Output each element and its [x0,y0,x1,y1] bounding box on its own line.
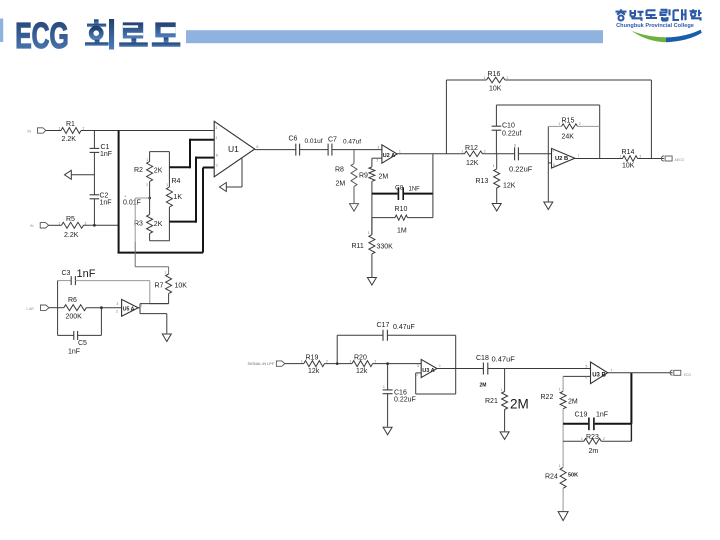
wire C5 bottom right [78,334,102,336]
svg-text:6: 6 [257,145,259,149]
svg-text:C7: C7 [328,137,337,144]
svg-text:2M: 2M [510,397,529,412]
svg-text:12k: 12k [356,368,368,375]
wire R22 top [562,376,564,391]
wire gray to cap 0.01F [135,197,149,199]
ground below C16 [383,427,392,435]
resistor R23 [584,439,602,445]
svg-text:1nF: 1nF [100,151,112,158]
wire U2A output [397,153,464,155]
svg-text:2: 2 [507,76,509,80]
college logo korean 충북도립대학 [616,9,702,20]
svg-text:U1: U1 [228,144,239,154]
svg-text:R14: R14 [622,149,635,156]
wire C17 top right [387,334,455,336]
op-amp U3A [421,359,437,377]
wire R9 down [371,181,373,234]
svg-text:U5 A: U5 A [123,307,135,313]
wire C7 to U2A [332,149,382,151]
resistor R8 [351,164,357,187]
svg-text:6: 6 [553,163,555,167]
svg-text:IN: IN [30,224,34,228]
svg-text:10K: 10K [489,86,502,93]
svg-text:7: 7 [611,369,613,373]
svg-text:200K: 200K [66,314,83,321]
svg-text:L AR: L AR [27,307,35,311]
svg-text:R1: R1 [66,121,75,128]
svg-text:2: 2 [603,437,605,441]
wire J2 to R5 [49,224,62,226]
svg-text:R10: R10 [395,206,408,213]
svg-text:1: 1 [559,387,561,391]
svg-text:0.01uf: 0.01uf [305,138,323,145]
op-amp U2A [382,145,397,163]
svg-text:R9: R9 [359,173,368,180]
svg-text:2M: 2M [336,181,346,188]
svg-text:R4: R4 [172,178,181,185]
wire R16 right vertical [650,80,652,159]
wire C17 top left [337,334,383,336]
svg-text:24K: 24K [562,134,575,141]
svg-text:R7: R7 [155,283,164,290]
capacitor C3 feedback wire left [58,280,72,282]
common reference connector [65,170,72,179]
wire R12 to C11 [483,153,515,155]
wire bottom bus [118,252,204,254]
resistor R12 [465,151,483,157]
wire R24 to ground [562,488,564,511]
svg-text:C17: C17 [377,322,390,329]
svg-text:1: 1 [484,76,486,80]
svg-text:R21: R21 [485,398,498,405]
svg-text:1: 1 [383,385,385,389]
svg-text:10K: 10K [175,283,188,290]
op-amp U3B [591,362,608,384]
ground below R13 [492,204,501,212]
junction C16 tap [386,362,389,365]
wire feedback right vertical [432,154,434,218]
svg-text:3: 3 [117,302,119,306]
resistor R3 [147,215,153,234]
svg-text:1: 1 [59,221,61,225]
wire U3A output [437,368,484,370]
wire C16 to ground [387,394,389,427]
svg-text:5: 5 [586,364,588,368]
wire C10 top [495,105,497,126]
svg-text:IN: IN [28,129,32,133]
wire reference to node [71,174,94,176]
wire C1 to C2 [93,152,95,194]
wire R6 to U5A [86,307,121,309]
svg-text:C8: C8 [395,185,404,192]
wire U2B inv stub [548,162,551,164]
wire C11 to U2B [518,153,551,155]
svg-text:0.47uf: 0.47uf [343,139,361,146]
wire gray R7 top stub [168,267,170,274]
wire top link R2-R4 [150,151,170,153]
svg-text:U3 A: U3 A [422,368,435,374]
wire C6 to C7 [300,149,329,151]
op-amp U1 [214,121,254,177]
svg-text:2: 2 [83,127,85,131]
svg-text:2: 2 [417,373,419,377]
wire R7 bottom [168,294,170,304]
svg-text:C18: C18 [476,355,489,362]
svg-text:R20: R20 [354,355,367,362]
svg-text:2: 2 [216,163,218,167]
wire terminal to R19 [285,363,304,365]
resistor R6 [64,305,87,311]
svg-text:10K: 10K [622,163,635,170]
svg-text:1nF: 1nF [596,411,608,418]
ground below R21 [500,432,509,440]
wire gain node to U1 pin8 [169,221,196,223]
wire U3A inv stub [416,372,422,374]
svg-text:C19: C19 [575,411,588,418]
resistor R10 [395,215,408,220]
ground below R11 [367,278,376,286]
wire R11 to ground [371,254,373,277]
wire J1 to R1 [46,130,61,132]
title korean 회로도 [85,19,180,50]
svg-text:R11: R11 [352,243,364,250]
wire R16 top right [505,79,651,81]
capacitor C3 [70,276,72,285]
wire R22 down through C19 R23 to R24 [562,409,564,468]
wire U2A inv input [372,157,382,159]
wire R2 top [149,152,151,162]
svg-text:12K: 12K [466,160,479,167]
svg-text:R22: R22 [541,394,554,401]
svg-text:R13: R13 [476,178,489,185]
wire inner box top [496,104,599,106]
svg-text:1NF: 1NF [409,187,421,193]
svg-text:C2: C2 [100,193,109,200]
junction C17 tap [336,362,339,365]
wire U3B inv input [563,375,590,377]
svg-text:2: 2 [326,359,328,363]
wire U2B output [575,158,623,160]
wire U3A feedback up [415,373,417,394]
svg-text:1: 1 [368,231,370,235]
capacitor C1 [90,147,100,149]
wire gain node to U1 pin1 [169,166,190,168]
wire C3 right down [149,281,151,304]
wire R23 left [563,440,584,442]
svg-text:1nF: 1nF [77,268,96,280]
resistor R1 [61,128,81,134]
svg-text:1M: 1M [397,228,407,235]
svg-text:R15: R15 [562,118,575,125]
svg-text:6: 6 [586,375,588,379]
wire C19 left [563,423,588,425]
capacitor C19 [588,418,590,431]
wire gray horizontal to R7 [135,266,168,268]
svg-text:1: 1 [350,359,352,363]
wire R3 bottom [149,234,151,241]
ground below R24 [558,512,568,521]
U1 ref connector [220,183,227,192]
capacitor C5 [73,331,75,340]
wire C16 down [387,364,389,390]
wire R16 left vertical [445,80,447,154]
svg-text:1: 1 [165,270,167,274]
wire C2 to R5 node [93,199,95,226]
svg-text:5: 5 [553,148,555,152]
wire R5 to left bus [84,224,119,226]
capacitor C10 [492,125,502,127]
output terminal ECG [661,156,664,161]
svg-text:2m: 2m [589,448,599,455]
wire C10 bottom [495,130,497,154]
left edge accent bar [0,19,3,43]
resistor R14 [623,156,638,162]
svg-text:R19: R19 [306,355,319,362]
wire U1 output [255,149,296,151]
capacitor 0.01F wire down [134,198,136,242]
capacitor C6 [295,144,297,156]
wire R15 right [578,125,600,127]
svg-text:ECG: ECG [684,373,692,377]
ground below U5A [162,334,171,342]
svg-text:2M: 2M [379,174,389,181]
resistor R11 [369,235,375,254]
wire C5 bottom left [58,334,74,336]
svg-text:0.01F: 0.01F [123,200,141,207]
resistor R2 [147,162,153,182]
resistor R13 [494,169,500,188]
wire R13 to ground [496,188,498,203]
svg-text:2.2K: 2.2K [62,136,77,143]
svg-text:0.47uF: 0.47uF [492,355,516,364]
wire R20 to U3A [373,363,422,365]
svg-text:0.47uF: 0.47uF [393,324,415,331]
wire R19 to R20 [325,363,353,365]
svg-text:R2: R2 [134,167,143,174]
svg-text:SIGNAL IN LPF: SIGNAL IN LPF [248,362,275,366]
wire U3A feedback bottom [416,393,456,395]
svg-text:1: 1 [146,158,148,162]
resistor R5 [62,222,84,228]
svg-text:R6: R6 [68,297,77,304]
wire J3 to R6 [49,307,64,309]
wire C17 left vertical [336,335,338,363]
capacitor C3 feedback wire right [75,280,149,282]
svg-text:2M: 2M [480,383,487,389]
ground below U2B [544,202,553,210]
svg-text:2: 2 [146,183,148,187]
wire R13 top [496,154,498,169]
capacitor C7 [327,144,329,156]
svg-text:R23: R23 [586,434,599,441]
op-amp U2B [552,148,575,168]
svg-text:1: 1 [501,388,503,392]
wire inner box right vertical [599,105,601,159]
wire R2 to R3 [149,182,151,215]
resistor R21 [502,392,508,410]
resistor R19 [304,361,325,367]
junction R2-R3 node [148,197,151,200]
svg-text:AECG: AECG [675,158,685,162]
svg-text:U3 B: U3 B [592,373,606,379]
resistor R15 [562,124,578,129]
svg-text:1K: 1K [174,194,183,201]
svg-text:0.22uF: 0.22uF [394,396,416,403]
svg-text:2: 2 [579,122,581,126]
college logo swoosh green part [632,31,667,42]
wire output to ground branch [140,313,167,315]
svg-text:R16: R16 [488,71,501,78]
svg-text:2: 2 [375,359,377,363]
wire C17 right vertical [455,335,457,394]
svg-text:3: 3 [378,146,380,150]
wire feedback right vertical thick [630,373,632,424]
svg-text:3: 3 [417,364,419,368]
wire C3 left vertical [57,281,59,336]
wire R23 right [601,440,631,442]
capacitor C17 [382,330,384,341]
capacitor C8 [397,187,399,200]
wire bottom link R3-R4 [150,240,170,242]
svg-text:1: 1 [301,359,303,363]
svg-text:U2 A: U2 A [383,153,396,159]
svg-text:6: 6 [514,144,516,148]
junction R6-C5 [100,306,103,309]
wire R4 column lower [168,207,170,241]
wire R7 bottom link [150,303,169,305]
svg-text:C16: C16 [394,389,407,396]
wire C18 to U3B [488,368,591,370]
wire U3B output [608,372,673,374]
wire C19 right [595,423,632,425]
wire output to R7 [140,303,169,305]
svg-text:Chungbuk Provincial College: Chungbuk Provincial College [616,23,694,29]
wire left bus vertical [118,131,120,253]
svg-text:U2 B: U2 B [555,156,568,162]
svg-text:1: 1 [581,437,583,441]
wire U5A output stubs [138,307,140,309]
wire R21 to ground [504,410,506,432]
svg-text:1: 1 [439,364,441,368]
svg-text:1nF: 1nF [100,200,112,207]
svg-text:R5: R5 [66,216,75,223]
resistor R16 [487,77,506,83]
svg-text:2: 2 [116,309,118,313]
svg-text:1: 1 [399,149,401,153]
svg-text:3: 3 [216,126,218,130]
resistor R7 [166,274,172,294]
svg-text:50K: 50K [568,472,578,478]
svg-text:12k: 12k [308,368,320,375]
svg-text:R24: R24 [545,473,558,480]
resistor R20 [352,361,373,367]
svg-text:8: 8 [216,153,218,157]
college logo swoosh blue part [666,30,702,43]
wire C5 up to input [100,308,102,336]
wire R14 to output terminal [638,158,664,160]
svg-text:C10: C10 [502,123,515,130]
wire R15 left vertical [547,126,549,201]
capacitor C2 [90,194,100,196]
svg-text:ECG: ECG [15,15,68,56]
svg-text:7: 7 [578,154,580,158]
svg-text:0.22uF: 0.22uF [509,165,533,174]
svg-text:R12: R12 [465,145,478,152]
capacitor C11 0.22uF [514,147,516,160]
wire feedback right vertical lower [630,424,632,442]
svg-text:1: 1 [216,136,218,140]
svg-text:12K: 12K [503,183,516,190]
wire R21 branch [504,369,506,392]
wire R8 branch [353,150,355,164]
svg-text:2: 2 [484,150,486,154]
svg-text:R8: R8 [335,167,344,174]
capacitor C16 [383,389,393,391]
U1 ref pin wire down [241,158,243,187]
wire bus to U1 pin2 [203,167,214,169]
svg-text:C5: C5 [78,340,87,347]
wire R4 column upper [168,152,170,187]
output terminal final [670,370,673,375]
wire C8 feedback right [404,193,433,195]
wire C8 feedback left [372,193,398,195]
svg-text:1: 1 [59,127,61,131]
svg-text:1: 1 [559,122,561,126]
wire R10 feedback left [372,217,395,219]
svg-text:C6: C6 [289,136,298,143]
svg-text:C3: C3 [62,270,71,277]
svg-text:1: 1 [462,150,464,154]
wire R1 to U1 pin3 [81,130,214,132]
svg-text:2: 2 [640,154,642,158]
title underline bar [186,30,603,43]
svg-text:2.2K: 2.2K [64,232,79,239]
ground below R8 [350,204,359,212]
wire R11 top [371,218,373,235]
svg-text:2: 2 [377,159,379,163]
wire right bus up [202,168,204,253]
svg-text:1: 1 [559,464,561,468]
svg-text:C1: C1 [101,144,110,151]
svg-text:1: 1 [620,154,622,158]
op-amp U5A [122,299,139,316]
resistor R22 [560,391,566,409]
wire R15 left [548,125,561,127]
svg-text:2M: 2M [568,398,578,405]
svg-text:1: 1 [166,183,168,187]
capacitor C18 [482,363,484,375]
svg-text:2K: 2K [154,221,163,228]
wire R10 feedback right [408,217,433,219]
junction C2-R5 [93,224,96,227]
svg-text:1: 1 [493,164,495,168]
resistor R4 [166,187,172,207]
svg-text:2K: 2K [154,168,163,175]
svg-text:1: 1 [141,303,143,307]
svg-text:2: 2 [85,221,87,225]
resistor R24 [560,467,566,488]
wire node down to C1 [93,131,95,149]
svg-text:0.22uf: 0.22uf [502,131,522,138]
svg-text:1nF: 1nF [68,349,80,356]
wire R16 top left [446,79,486,81]
svg-text:330K: 330K [377,244,394,251]
wire R8 to ground [353,187,355,204]
resistor R9 [369,167,375,181]
